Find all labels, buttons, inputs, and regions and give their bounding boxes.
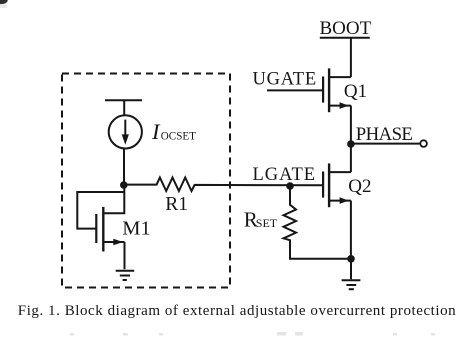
svg-text:BOOT: BOOT <box>320 18 372 39</box>
svg-text:Fig. 1. Block diagram of exter: Fig. 1. Block diagram of external adjust… <box>18 303 456 319</box>
svg-text:LGATE: LGATE <box>253 165 317 185</box>
svg-text:SET: SET <box>256 216 278 230</box>
svg-text:PHASE: PHASE <box>356 124 413 145</box>
svg-text:UGATE: UGATE <box>253 70 317 90</box>
svg-text:M1: M1 <box>122 218 150 240</box>
svg-text:Q2: Q2 <box>348 176 371 197</box>
svg-text:Q1: Q1 <box>344 81 367 102</box>
svg-text:R1: R1 <box>165 194 188 215</box>
svg-text:OCSET: OCSET <box>161 131 196 143</box>
